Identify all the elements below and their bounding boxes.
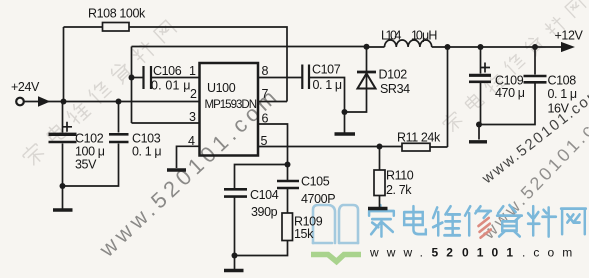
wire pin6 down to comp node — [258, 124, 288, 165]
svg-text:0. 1 μ: 0. 1 μ — [313, 78, 342, 92]
node C102/C103 gnd — [60, 183, 66, 189]
watermark pink diagonal right www.52010 — [478, 84, 589, 188]
node C106/SW — [129, 75, 135, 81]
wire R11 branch vertical — [447, 47, 449, 147]
logo green swoosh — [311, 255, 361, 262]
svg-text:D102: D102 — [379, 68, 408, 82]
wire pin5 to R11 — [258, 146, 402, 148]
char xiu — [465, 206, 491, 237]
logo book icon — [313, 205, 358, 243]
svg-text:2: 2 — [190, 87, 197, 101]
svg-text:1: 1 — [189, 64, 196, 78]
svg-text:C108: C108 — [548, 74, 577, 88]
watermark gray diagonal right www.520101 — [478, 96, 589, 243]
logo chinese text (stylized strokes) — [369, 205, 586, 237]
svg-text:U100: U100 — [207, 81, 236, 95]
char liao — [528, 206, 556, 236]
svg-text:C107: C107 — [312, 63, 341, 77]
resistor R109 — [282, 213, 293, 241]
svg-text:0. 01 μ: 0. 01 μ — [151, 79, 190, 93]
capacitor C103 plates — [109, 134, 129, 142]
svg-text:R110: R110 — [386, 169, 414, 183]
capacitor C104 plates — [224, 189, 247, 196]
U100 IC box — [200, 63, 259, 156]
svg-text:MP1593DN: MP1593DN — [205, 99, 258, 111]
svg-text:0. 1 μ: 0. 1 μ — [132, 145, 161, 159]
ground under C109 — [478, 125, 480, 140]
resistor R108 — [103, 23, 130, 32]
logo url text — [369, 246, 580, 260]
node C108 — [532, 44, 538, 50]
wire C105 to R109 — [287, 189, 289, 213]
svg-text:7: 7 — [262, 87, 269, 101]
capacitor C109 plus — [480, 63, 490, 73]
wire pin8 stub to C107 — [258, 77, 302, 79]
svg-text:5: 5 — [261, 134, 268, 148]
wire C106 left to SW — [132, 77, 144, 79]
char wang — [561, 209, 586, 235]
node C109 — [478, 44, 484, 50]
ground under C102 — [62, 186, 64, 209]
svg-text:100 μ: 100 μ — [75, 145, 105, 159]
svg-text:C104: C104 — [250, 188, 279, 202]
node R11 out — [445, 44, 451, 50]
wire gnd node to D102 anode — [345, 89, 367, 112]
capacitor C108 top wire — [534, 47, 536, 75]
node input/C102 — [61, 99, 67, 105]
svg-text:L104: L104 — [381, 29, 401, 43]
input terminal +24V circle — [16, 98, 24, 106]
wire C102 bottom — [62, 144, 64, 187]
watermark gray diagonal www.520101.com left — [94, 82, 285, 262]
capacitor C102 plates — [49, 133, 77, 136]
node comp bottom — [232, 253, 238, 259]
wire R109 bottom to node — [235, 241, 288, 256]
svg-text:+12V: +12V — [555, 29, 584, 43]
char zi — [497, 205, 522, 236]
svg-text:4: 4 — [188, 134, 195, 148]
capacitor C107 plates — [302, 65, 309, 90]
arrow on input rail — [39, 97, 50, 106]
wire R110 top — [379, 147, 381, 171]
wire C104 bottom — [234, 198, 236, 256]
ground under R110 — [368, 207, 388, 210]
svg-text:8: 8 — [262, 64, 269, 78]
char jia — [369, 205, 394, 236]
wire C107 right to gnd node — [310, 78, 345, 113]
capacitor C102 top wire — [62, 102, 64, 133]
char dian — [404, 206, 426, 234]
capacitor C109 top wire — [480, 47, 482, 74]
wire C103 bottom to gnd node — [63, 144, 119, 187]
capacitor C105 plates — [277, 181, 299, 188]
svg-text:0101: 0101 — [462, 246, 521, 260]
wire comp node left to C104 — [235, 165, 288, 189]
svg-text:3: 3 — [189, 110, 196, 124]
node C103 — [116, 99, 122, 105]
capacitor C102 plus sign — [62, 122, 72, 132]
wire R108 rail left segment — [64, 26, 103, 28]
arrow +12V output — [562, 43, 574, 52]
watermark gray chinese diagonal top-left — [20, 18, 178, 167]
svg-text:35V: 35V — [75, 158, 97, 172]
svg-text:C105: C105 — [301, 175, 330, 189]
wire R11 right to vertical — [430, 146, 448, 148]
svg-text:C102: C102 — [75, 132, 104, 146]
wire SW vertical x131.5 — [131, 47, 133, 124]
wire pin7 stub — [258, 101, 287, 103]
svg-text:2. 7k: 2. 7k — [386, 183, 412, 197]
resistor R110 — [374, 170, 385, 196]
wire SW top rail to L104 — [132, 46, 385, 49]
capacitor C105 top wire — [287, 165, 289, 181]
ground under pin4 — [167, 168, 186, 171]
wire input rail to pin 2 — [24, 101, 200, 103]
wire pin4 to ground — [177, 146, 200, 168]
svg-text:470 μ: 470 μ — [495, 86, 525, 100]
wire C108 bottom to node — [479, 83, 535, 125]
wire R110 bottom to ground — [379, 196, 381, 208]
node SW/L104/D102 — [364, 44, 370, 50]
svg-text:10 μ H: 10 μ H — [411, 29, 437, 43]
svg-text:SR34: SR34 — [380, 82, 410, 96]
svg-text:52: 52 — [432, 246, 462, 260]
node C109 bottom — [476, 122, 482, 128]
wire C106 right to pin1 — [152, 77, 200, 79]
wire pin3 stub — [132, 122, 200, 124]
svg-text:C106: C106 — [153, 64, 182, 78]
svg-text:.com: .com — [522, 246, 580, 260]
resistor R11 — [402, 143, 430, 151]
svg-text:+24V: +24V — [11, 80, 40, 94]
capacitor C106 plates — [144, 66, 152, 89]
node C107 gnd — [342, 109, 348, 115]
svg-text:4700P: 4700P — [301, 192, 335, 206]
diode D102 — [366, 47, 368, 72]
wire C109 bottom node — [480, 83, 482, 125]
svg-text:C103: C103 — [132, 132, 161, 146]
watermark gray chinese diagonal top-right — [440, 0, 587, 134]
capacitor C103 top wire — [118, 102, 120, 133]
wire left vertical x63 up to R108 rail — [63, 27, 65, 102]
svg-text:R108 100k: R108 100k — [88, 7, 146, 21]
inductor L104 — [385, 40, 432, 47]
svg-text:0. 1 μ: 0. 1 μ — [548, 87, 577, 101]
node FB — [377, 144, 383, 150]
wire output rail to arrow — [432, 46, 563, 48]
svg-text:16V: 16V — [548, 102, 570, 116]
capacitor C109 plates — [469, 74, 491, 77]
svg-text:6: 6 — [262, 112, 269, 126]
ground under comp bottom node — [234, 256, 236, 270]
svg-text:www.: www. — [369, 246, 431, 260]
wire R108 rail right segment + down to pin7 — [129, 27, 287, 102]
svg-text:390p: 390p — [251, 205, 278, 219]
svg-text:R11 24k: R11 24k — [397, 131, 441, 145]
char wei — [433, 206, 460, 235]
node comp — [285, 162, 291, 168]
svg-text:15k: 15k — [294, 227, 314, 241]
ground under C107 — [344, 112, 346, 133]
capacitor C108 plates — [524, 76, 547, 82]
